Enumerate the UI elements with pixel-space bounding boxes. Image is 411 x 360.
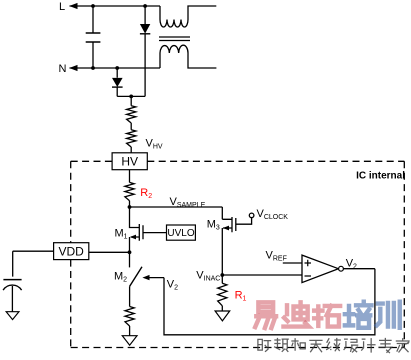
svg-text:L: L [59,1,65,13]
svg-text:HV: HV [121,155,138,169]
svg-text:N: N [59,63,67,75]
svg-text:UVLO: UVLO [167,228,194,239]
svg-text:VDD: VDD [59,245,85,259]
svg-text:IC internal: IC internal [356,170,405,181]
